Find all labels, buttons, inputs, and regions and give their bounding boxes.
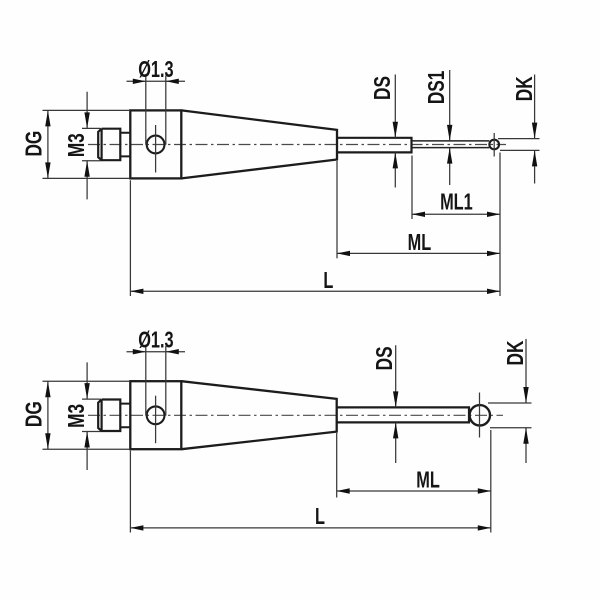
dimension M3 arrowheads (top view) bbox=[84, 112, 89, 176]
dimension DK arrowheads (top view) bbox=[532, 123, 537, 167]
holder block (bottom view) bbox=[130, 381, 181, 449]
svg-text:Ø1.3: Ø1.3 bbox=[138, 328, 173, 353]
cross hole in holder (top view) bbox=[147, 136, 165, 154]
dimension DG line (top view) bbox=[47, 110, 49, 178]
svg-text:DS: DS bbox=[371, 76, 396, 100]
dimension DS1 arrowheads (top view) bbox=[447, 125, 452, 164]
dimension Ø1.3 leader lines (top view) bbox=[127, 76, 186, 145]
dimension M3 extension lines (top view) bbox=[82, 128, 101, 160]
dimension L line (bottom view) bbox=[130, 527, 490, 529]
centerline (bottom view) bbox=[88, 414, 503, 416]
dimension M3 arrowheads (bottom view) bbox=[84, 383, 89, 447]
dimension ML arrowheads (bottom view) bbox=[337, 488, 491, 493]
dimension ML line (bottom view) bbox=[337, 490, 491, 492]
svg-text:ML: ML bbox=[416, 468, 440, 493]
dimension L arrowheads (top view) bbox=[130, 289, 500, 294]
hole vertical centerline (top view) bbox=[155, 125, 157, 173]
dimension DG extension lines (bottom view) bbox=[43, 381, 131, 449]
stud neck groove (bottom view) bbox=[120, 404, 130, 428]
dimension DS line (bottom view) bbox=[395, 345, 397, 463]
dimension Ø1.3 arrowheads (top view) bbox=[133, 79, 179, 84]
dimension M3 extension lines (bottom view) bbox=[82, 399, 101, 431]
dimension ML arrowheads (top view) bbox=[337, 251, 500, 256]
ball vertical crosshair (top view) bbox=[493, 133, 495, 157]
threaded stud M3 (bottom view) bbox=[98, 400, 120, 432]
dimension L arrowheads (bottom view) bbox=[130, 525, 490, 530]
svg-text:DS: DS bbox=[373, 346, 398, 370]
stem DS1 thin section (top view) bbox=[412, 141, 490, 148]
dimension DK arrowheads (bottom view) bbox=[523, 387, 528, 444]
svg-text:DS1: DS1 bbox=[425, 71, 450, 105]
ball vertical crosshair (bottom view) bbox=[479, 393, 481, 438]
dimension Ø1.3 arrowheads (bottom view) bbox=[133, 349, 179, 354]
ball tip DK (bottom view) bbox=[470, 405, 490, 425]
svg-text:Ø1.3: Ø1.3 bbox=[138, 57, 173, 82]
hole vertical centerline (bottom view) bbox=[155, 396, 157, 444]
svg-text:DG: DG bbox=[22, 401, 47, 427]
dimension DK line (top view) bbox=[534, 75, 536, 184]
dimension DG arrowheads (bottom view) bbox=[45, 381, 50, 449]
dimension DG line (bottom view) bbox=[47, 381, 49, 449]
taper cone (top view) bbox=[182, 110, 338, 178]
dimension L extension line (top view) bbox=[129, 180, 131, 296]
stem DS section (bottom view) bbox=[337, 407, 469, 422]
dimension M3 line (top view) bbox=[86, 92, 88, 200]
dimension ML line (top view) bbox=[337, 252, 500, 254]
dimension DS arrowheads (bottom view) bbox=[393, 391, 398, 438]
centerline (top view) bbox=[88, 144, 506, 146]
holder block (top view) bbox=[130, 110, 181, 178]
dimension DS arrowheads (top view) bbox=[393, 122, 398, 169]
svg-text:M3: M3 bbox=[65, 133, 90, 157]
cross hole in holder (bottom view) bbox=[147, 406, 165, 424]
shared right extension line at ball (bottom view) bbox=[490, 430, 492, 533]
dimension DS line (top view) bbox=[394, 75, 396, 188]
dimension DK extension lines (top view) bbox=[498, 139, 540, 151]
dimension ML1 arrowheads (top view) bbox=[412, 212, 500, 217]
svg-text:DK: DK bbox=[504, 340, 529, 365]
dimension DG extension lines (top view) bbox=[43, 110, 131, 178]
dimension DK line (bottom view) bbox=[525, 339, 527, 463]
svg-text:L: L bbox=[315, 504, 325, 529]
dimension DG arrowheads (top view) bbox=[45, 110, 50, 178]
dimension ML extension line (bottom view) bbox=[336, 433, 338, 498]
shared right extension line at ball (top view) bbox=[499, 153, 501, 297]
svg-text:ML: ML bbox=[408, 231, 432, 256]
dimension ML extension line (top view) bbox=[336, 161, 338, 258]
svg-text:DK: DK bbox=[513, 76, 538, 101]
dimension ML1 line (top view) bbox=[412, 213, 500, 215]
ball tip DK (top view) bbox=[489, 140, 499, 150]
svg-text:L: L bbox=[323, 268, 333, 293]
dimension DK extension lines (bottom view) bbox=[488, 403, 532, 428]
dimension L line (top view) bbox=[130, 290, 500, 292]
dimension L extension line (bottom view) bbox=[129, 451, 131, 533]
dimension ML1 extension line (top view) bbox=[411, 156, 413, 220]
taper cone (bottom view) bbox=[182, 381, 337, 449]
threaded stud M3 (top view) bbox=[98, 129, 120, 161]
svg-text:DG: DG bbox=[22, 131, 47, 157]
svg-text:ML1: ML1 bbox=[440, 190, 473, 215]
dimension Ø1.3 leader lines (bottom view) bbox=[127, 346, 186, 416]
svg-text:M3: M3 bbox=[65, 404, 90, 428]
stud neck groove (top view) bbox=[120, 133, 130, 157]
stem DS section (top view) bbox=[337, 138, 412, 153]
dimension M3 line (bottom view) bbox=[86, 362, 88, 470]
dimension DS1 line (top view) bbox=[449, 70, 451, 185]
